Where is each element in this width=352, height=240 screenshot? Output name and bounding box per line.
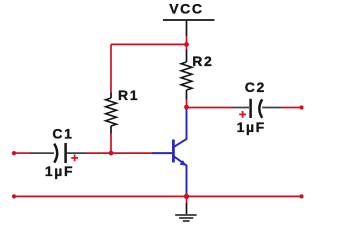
junction base node bbox=[109, 151, 114, 156]
junction emitter node bbox=[184, 194, 189, 199]
wire C2 to output bbox=[281, 107, 302, 109]
wire bottom rail bbox=[14, 195, 302, 197]
ground bbox=[175, 196, 196, 221]
wire R1 top vertical bbox=[110, 44, 112, 92]
capacitor C1 bbox=[30, 143, 86, 163]
label C1 plus bbox=[71, 155, 78, 162]
power symbol VCC bbox=[163, 0, 215, 20]
wire input bbox=[14, 152, 30, 154]
svg-text:C2: C2 bbox=[245, 79, 266, 95]
svg-text:R1: R1 bbox=[118, 87, 139, 103]
wire VCC stem (black part) bbox=[186, 20, 188, 36]
label C2 plus bbox=[239, 111, 246, 118]
svg-text:R2: R2 bbox=[192, 53, 213, 69]
resistor R2 bbox=[181, 50, 192, 100]
terminal output dot bbox=[299, 105, 303, 109]
wire R1 bottom vertical bbox=[110, 134, 112, 154]
svg-text:VCC: VCC bbox=[169, 0, 203, 16]
capacitor C2 bbox=[233, 99, 281, 118]
svg-text:C1: C1 bbox=[52, 126, 73, 142]
wire C1 to base node bbox=[86, 152, 152, 154]
wire top horizontal to R1 bbox=[111, 43, 187, 45]
terminal bottom-right dot bbox=[299, 194, 303, 198]
wire collector node to C2 bbox=[187, 107, 234, 109]
wire VCC stem (red part) bbox=[186, 36, 188, 50]
junction collector node bbox=[184, 105, 189, 110]
terminal input dot bbox=[12, 151, 16, 155]
junction VCC node bbox=[184, 42, 189, 47]
svg-text:1µF: 1µF bbox=[237, 119, 266, 135]
terminal bottom-left dot bbox=[12, 194, 16, 198]
svg-text:1µF: 1µF bbox=[45, 163, 74, 179]
resistor R1 bbox=[106, 93, 117, 134]
wire R2 bottom to collector node bbox=[186, 100, 188, 108]
transistor Q1 (NPN) bbox=[152, 109, 187, 197]
